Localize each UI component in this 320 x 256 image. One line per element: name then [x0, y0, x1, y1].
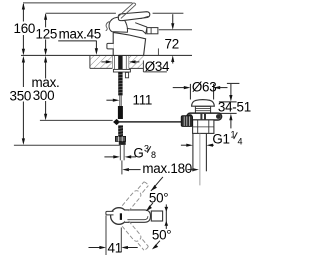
upper dashed handle	[122, 181, 150, 212]
lever inner tip line	[140, 16, 148, 18]
top view handle stadium	[124, 210, 150, 222]
hose axis extension line	[121, 160, 123, 174]
svg-text:max.45: max.45	[59, 27, 101, 42]
supply cap	[119, 141, 126, 145]
shank stud lower	[118, 106, 123, 119]
extension line top (160/350 upper ref)	[23, 2, 132, 4]
cartridge dome	[109, 17, 127, 32]
svg-text:3: 3	[144, 144, 149, 154]
mounting deck top line	[21, 54, 192, 56]
vertical dim arrows at handle	[165, 204, 167, 229]
supply nut	[115, 136, 125, 141]
extension line second right part	[153, 12, 184, 14]
deck hatched right part	[129, 56, 144, 68]
spout tab left	[107, 43, 114, 49]
svg-text:max.180: max.180	[142, 161, 192, 176]
svg-text:111: 111	[133, 92, 153, 107]
shank thread below coupling	[118, 125, 123, 136]
clamp screw tab	[125, 72, 128, 77]
lever rear underside edge	[135, 23, 147, 27]
svg-text:125: 125	[36, 27, 58, 42]
supply hose tube	[119, 145, 121, 160]
popup rod coupling diamond	[113, 119, 120, 125]
squiggle left of dome	[106, 22, 110, 31]
lower dashed handle	[122, 221, 150, 252]
rod knuckle on drain	[181, 116, 192, 127]
dimension max300 line	[45, 60, 47, 117]
svg-text:41: 41	[108, 240, 122, 255]
svg-text:8: 8	[151, 150, 156, 160]
shank stud threaded	[118, 72, 122, 95]
popup rod horizontal	[118, 121, 182, 123]
svg-text:4: 4	[238, 136, 243, 146]
dimension 125 line	[45, 14, 47, 51]
stadium inner line	[127, 216, 147, 220]
drain dimension O63 arrows	[173, 87, 185, 89]
deck outline	[90, 56, 143, 69]
O34 arrows	[101, 61, 106, 63]
dimension 160 line	[22, 4, 24, 51]
top view handle knob	[151, 211, 162, 221]
faucet lever blade	[118, 12, 149, 21]
tailpipe center line	[199, 133, 201, 185]
top view circle	[111, 208, 128, 225]
small tick above O34	[157, 48, 159, 55]
shank tube in hole	[113, 56, 115, 70]
svg-text:34-51: 34-51	[218, 99, 251, 114]
G3/8 arrows	[104, 156, 114, 158]
svg-text:72: 72	[165, 37, 179, 52]
seat ring center clevis	[200, 113, 202, 120]
center tick	[120, 213, 122, 220]
deck hatched left part	[90, 56, 113, 68]
small arrow text to dashed	[149, 203, 153, 208]
drain lower body	[193, 120, 214, 133]
dimension 41	[89, 247, 101, 249]
drain seat ring	[187, 113, 222, 120]
dimension 350 line	[22, 60, 24, 141]
svg-text:Ø63: Ø63	[192, 79, 217, 94]
extension line second (125/max300/72 upper ref) left part	[46, 12, 116, 14]
O63 ticks	[189, 84, 191, 100]
V notch to handle knob	[143, 28, 147, 34]
faucet shank stud upper	[118, 56, 122, 72]
svg-text:G1: G1	[212, 131, 229, 146]
dimension 72	[159, 29, 192, 31]
thin rod segment	[119, 95, 121, 106]
svg-text:160: 160	[14, 21, 36, 36]
O34 label notch	[143, 61, 167, 72]
handle end knob front view	[147, 28, 158, 34]
svg-text:50°: 50°	[149, 191, 169, 206]
svg-text:50°: 50°	[152, 228, 172, 243]
svg-text:350: 350	[10, 89, 32, 104]
faucet body	[113, 32, 145, 55]
lower 50 leader	[153, 241, 160, 248]
upper 50 leader	[151, 177, 163, 191]
drain neck	[195, 106, 210, 113]
drain plug dome	[192, 100, 215, 107]
drain tailpipe	[192, 133, 194, 171]
dimension 34-51	[227, 82, 240, 84]
body top surface edge	[127, 28, 143, 30]
top view spout tab	[106, 211, 114, 215]
350 bottom ref line	[14, 144, 120, 146]
max300 bottom ref line	[40, 119, 113, 121]
dimension max.180	[122, 168, 129, 171]
dimension G1 1/4 arrows	[181, 144, 187, 146]
raised lever phantom lines	[117, 3, 133, 18]
washer under deck	[113, 69, 130, 72]
svg-text:G: G	[133, 146, 143, 161]
arrow 111	[106, 99, 113, 101]
41 extension lines	[105, 215, 107, 255]
svg-text:300: 300	[33, 88, 55, 103]
svg-text:Ø34: Ø34	[145, 59, 170, 74]
deck hole walls	[112, 56, 114, 68]
